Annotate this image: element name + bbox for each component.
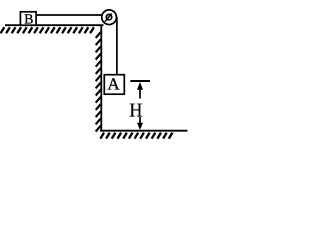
svg-text:A: A bbox=[107, 74, 120, 93]
svg-text:B: B bbox=[24, 13, 33, 28]
